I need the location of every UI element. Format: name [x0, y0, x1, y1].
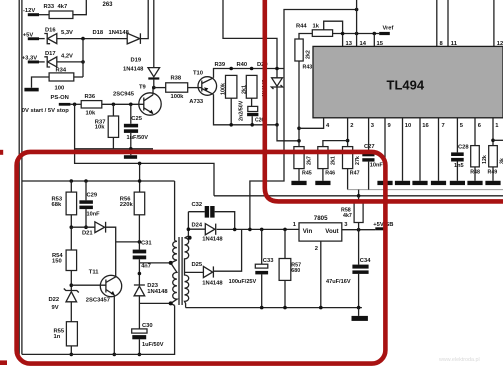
- junction y163.4 riser: [138, 162, 142, 166]
- ground stub (secondary): [358, 308, 360, 316]
- transistor T11 2SC3457: [86, 270, 122, 304]
- wire -12V to R33: [39, 14, 49, 16]
- wire T10 emitter rail: [214, 94, 278, 124]
- svg-text:4,2V: 4,2V: [61, 53, 73, 59]
- wire pin11 riser: [447, 0, 449, 46]
- wire rail A y181: [22, 180, 175, 182]
- svg-text:7805: 7805: [314, 215, 328, 222]
- junction R53/D21: [70, 225, 74, 229]
- junction C33 top: [260, 228, 264, 232]
- junction R40 top: [250, 67, 254, 71]
- wire D18 to riser: [140, 0, 148, 39]
- wire pin 7 to ground: [438, 118, 440, 181]
- svg-text:680: 680: [291, 268, 300, 274]
- transformer TR core: [179, 237, 182, 305]
- zener D22 9V: [49, 289, 79, 322]
- wire rail A to transformer primary: [174, 181, 176, 241]
- junction pin14: [355, 32, 359, 36]
- resistor R38 100k: [166, 76, 188, 100]
- diode D24 1N4148: [188, 223, 223, 243]
- svg-text:15: 15: [377, 41, 384, 47]
- wire R43 bottom stem to R45: [298, 61, 300, 147]
- capacitor C33 100uF/25V: [229, 229, 275, 307]
- wire pin 16 to ground: [419, 118, 421, 181]
- junction R57 top: [283, 228, 287, 232]
- wire T9 collector: [152, 88, 154, 95]
- svg-text:1uF/50V: 1uF/50V: [127, 135, 149, 141]
- svg-text:10nF: 10nF: [87, 212, 101, 218]
- annotation red tick left edge top: [0, 150, 3, 155]
- resistor R58 4k7: [341, 196, 363, 230]
- capacitor C32: [188, 202, 234, 229]
- svg-text:R44: R44: [296, 24, 307, 30]
- svg-text:PS-ON: PS-ON: [51, 95, 69, 101]
- wire pin14 riser: [356, 0, 358, 46]
- transformer secondary winding: [185, 229, 189, 307]
- svg-text:7: 7: [442, 123, 445, 129]
- resistor R48 12k: [470, 118, 488, 181]
- svg-text:A733: A733: [189, 99, 204, 105]
- svg-text:2: 2: [315, 246, 318, 252]
- junction pin15: [373, 32, 377, 36]
- wire base to T11: [71, 284, 106, 286]
- svg-text:C32: C32: [192, 202, 203, 208]
- junction C25 bottom / ground stub: [129, 147, 133, 151]
- svg-text:R36: R36: [85, 94, 96, 100]
- junction T9 collector node: [152, 86, 156, 90]
- diode D18 1N4148: [93, 30, 141, 44]
- junction D23 top: [138, 272, 142, 276]
- svg-text:Vref: Vref: [383, 26, 394, 32]
- svg-text:C33: C33: [263, 258, 274, 264]
- svg-text:68k: 68k: [52, 202, 62, 208]
- ground bar (pin 7): [431, 181, 446, 185]
- junction PS-ON drop: [73, 103, 77, 107]
- resistor R44 1k: [296, 24, 333, 37]
- wire +5V to D16: [39, 38, 45, 40]
- capacitor C31 4n7: [133, 241, 153, 285]
- wire pin 10 to ground: [402, 118, 404, 181]
- node Vref stub: [379, 26, 393, 35]
- wire pin15: [373, 34, 375, 47]
- wire T10 collector supply net: [214, 69, 285, 78]
- wire 7805 output: [342, 229, 376, 231]
- wire upper circuit ground rail y148.8: [75, 148, 153, 150]
- capacitor C34 47uF/16V: [326, 230, 371, 308]
- ground bar (secondary): [352, 316, 368, 321]
- svg-text:T9: T9: [139, 85, 147, 91]
- svg-text:10k: 10k: [95, 125, 105, 131]
- svg-text:C30: C30: [142, 323, 153, 329]
- resistor R40 2k1: [237, 62, 258, 106]
- junction R55 bottom: [70, 353, 74, 357]
- svg-text:4k7: 4k7: [58, 4, 68, 10]
- capacitor C26 2n2/50V: [239, 100, 265, 125]
- svg-text:R38: R38: [171, 76, 182, 82]
- node PS-ON input: [22, 95, 71, 114]
- wire T11 emitter: [113, 295, 115, 355]
- junction primary bottom (dot): [169, 301, 173, 305]
- ground bar (pin 6 / R48): [467, 181, 482, 185]
- svg-text:T11: T11: [89, 270, 99, 276]
- left schematic boundary double line: [19, 0, 22, 354]
- svg-text:D21: D21: [82, 231, 93, 237]
- ground bar (C25 net, over red line): [124, 155, 137, 159]
- svg-text:C34: C34: [360, 258, 371, 264]
- ground bar (pin 5 / C28): [450, 181, 465, 185]
- svg-text:T10: T10: [193, 70, 203, 76]
- svg-text:C27: C27: [364, 144, 375, 150]
- wire bottom ground rail: [22, 306, 175, 355]
- svg-text:C25: C25: [131, 116, 142, 122]
- wire collector tap to C31 node: [116, 241, 140, 243]
- junction C34 bottom: [357, 306, 361, 310]
- svg-text:100: 100: [55, 85, 65, 91]
- resistor R43 2k2: [295, 39, 312, 70]
- wire riser to rail A and R56: [139, 163, 141, 192]
- wire PS-ON to R36: [70, 103, 81, 105]
- junction B (+3,3V zener node): [81, 60, 85, 64]
- junction C26 bottom: [250, 123, 254, 127]
- wire D21 cathode to T11 collector: [106, 227, 116, 276]
- svg-text:16: 16: [422, 123, 429, 129]
- wire R38 to T10 base: [188, 87, 202, 89]
- svg-text:3k: 3k: [500, 158, 503, 164]
- junction pin14 top: [355, 8, 359, 12]
- svg-text:10nF: 10nF: [370, 162, 384, 168]
- capacitor C30 1uF/50V: [132, 323, 164, 355]
- svg-text:1N4148: 1N4148: [123, 66, 144, 72]
- svg-text:220k: 220k: [120, 202, 134, 208]
- ground bar (pin 10): [395, 181, 410, 185]
- svg-text:11: 11: [451, 41, 458, 47]
- svg-text:5,3V: 5,3V: [61, 30, 73, 36]
- svg-text:C29: C29: [87, 193, 98, 199]
- node -12V input stub: [23, 8, 39, 16]
- junction 7805 pin2: [319, 306, 323, 310]
- wire pin8 riser: [436, 0, 438, 46]
- svg-text:C31: C31: [141, 241, 152, 247]
- wire pin 2 to R47: [347, 118, 349, 147]
- svg-text:Vin: Vin: [303, 228, 313, 235]
- svg-text:D18: D18: [93, 30, 104, 36]
- junction D20 bottom: [275, 123, 279, 127]
- junction via x249.9: [248, 228, 252, 232]
- junction R43/D20 feed: [297, 139, 301, 143]
- wire primary bottom tap: [139, 302, 171, 304]
- wire pin12 riser: [493, 0, 495, 46]
- svg-text:4k7: 4k7: [343, 213, 352, 219]
- wire +5V node y229.4: [217, 228, 299, 230]
- wire gray rail y189.6: [348, 189, 503, 191]
- junction C29/D21: [84, 225, 88, 229]
- junction C32: [233, 228, 237, 232]
- transistor T9 2SC945: [113, 85, 161, 116]
- svg-text:R33: R33: [44, 4, 55, 10]
- wire pin 4: [299, 118, 324, 129]
- node +5V input stub: [23, 32, 39, 40]
- wire +5VSB rail y195.8: [214, 195, 503, 197]
- svg-text:150: 150: [52, 258, 62, 264]
- wire R43 top to R44: [299, 34, 312, 40]
- ground bar (pin 16): [412, 181, 427, 185]
- svg-text:2k1: 2k1: [241, 85, 247, 94]
- wire T9 base net: [102, 103, 144, 105]
- svg-text:Vout: Vout: [325, 228, 338, 235]
- svg-text:100k: 100k: [221, 83, 227, 95]
- resistor R47 27k: [343, 147, 362, 190]
- wire D21 anode: [71, 226, 95, 228]
- svg-text:www.elektroda.pl: www.elektroda.pl: [438, 357, 480, 363]
- node +5V SB stub: [373, 222, 393, 230]
- svg-text:1uF/50V: 1uF/50V: [142, 342, 164, 348]
- wire R46 jumper: [323, 141, 348, 147]
- wire stem to +5VSB rail: [358, 190, 360, 196]
- svg-text:R40: R40: [237, 62, 248, 68]
- junction C32 left riser: [187, 227, 191, 231]
- svg-text:100uF/25V: 100uF/25V: [229, 279, 257, 285]
- node +3,3V input stub: [22, 56, 39, 64]
- svg-text:12k: 12k: [482, 155, 488, 164]
- svg-text:D16: D16: [45, 28, 56, 34]
- op-amp U1 TL494: [313, 46, 503, 117]
- diode D21: [82, 222, 106, 237]
- junction A (+5V zener node): [81, 37, 85, 41]
- wire D16 to junction: [57, 38, 127, 40]
- svg-text:9V: 9V: [52, 305, 59, 311]
- svg-text:C28: C28: [458, 144, 469, 150]
- svg-text:0V start / 5V stop: 0V start / 5V stop: [22, 108, 69, 114]
- svg-text:1n5: 1n5: [454, 163, 464, 169]
- junction R39 top: [229, 67, 233, 71]
- junction C25 top: [129, 103, 133, 107]
- svg-text:D22: D22: [49, 297, 60, 303]
- svg-text:R45: R45: [302, 170, 312, 176]
- wire ground stub: [130, 149, 132, 155]
- svg-text:100k: 100k: [171, 94, 185, 100]
- svg-text:27k: 27k: [355, 156, 361, 165]
- ground bar (R46): [315, 181, 330, 185]
- svg-text:R47: R47: [350, 170, 360, 176]
- svg-text:1N4148: 1N4148: [109, 30, 130, 36]
- resistor R49: [488, 118, 503, 181]
- junction R58 top: [357, 194, 361, 198]
- svg-text:-12V: -12V: [23, 8, 35, 14]
- junction D20 top: [275, 67, 279, 71]
- wire R34 left to ground: [32, 77, 50, 88]
- wire via x284 (top feed to +5VSB node): [250, 10, 357, 230]
- resistor R36 10k: [81, 94, 102, 116]
- svg-text:TL494: TL494: [387, 78, 425, 93]
- diode D23 1N4148: [134, 283, 168, 329]
- wire R33 to top edge: [73, 0, 86, 15]
- svg-text:2SC3457: 2SC3457: [86, 297, 110, 303]
- junction primary tap (dot): [169, 261, 173, 265]
- ground bar (R34): [24, 88, 38, 92]
- zener D17 4,2V: [44, 51, 73, 67]
- junction T11 base: [70, 283, 74, 287]
- wire secondary ground rail y307.6: [186, 307, 362, 309]
- junction R39 bottom: [229, 123, 233, 127]
- diode D19 1N4148: [123, 0, 160, 88]
- resistor R37 10k: [95, 104, 119, 149]
- svg-text:1N4148: 1N4148: [202, 280, 223, 286]
- wire D17 to junction: [57, 61, 83, 63]
- annotation red tick left edge bottom: [0, 360, 7, 365]
- svg-text:13: 13: [346, 41, 353, 47]
- svg-text:10: 10: [405, 123, 411, 129]
- transformer primary winding: [171, 241, 177, 306]
- capacitor C28 1n5: [451, 118, 469, 181]
- svg-text:2: 2: [350, 123, 353, 129]
- svg-text:10k: 10k: [86, 110, 96, 116]
- junction C30 bottom: [138, 353, 142, 357]
- svg-text:12: 12: [497, 41, 503, 47]
- svg-text:2n2/50V: 2n2/50V: [239, 100, 245, 121]
- junction C29 top: [84, 179, 88, 183]
- diode D25 1N4148: [185, 262, 224, 287]
- wire +3,3V to D17: [39, 61, 45, 63]
- svg-text:14: 14: [360, 41, 367, 47]
- junction C33 bottom: [260, 306, 264, 310]
- resistor R56 220k: [120, 192, 145, 242]
- svg-text:D17: D17: [45, 51, 56, 57]
- wire collector node to R38: [154, 87, 166, 89]
- svg-text:47uF/16V: 47uF/16V: [326, 279, 351, 285]
- junction pin2/R46: [346, 139, 350, 143]
- svg-text:2k2: 2k2: [306, 50, 312, 59]
- wire D25 cathode to node: [213, 229, 241, 271]
- svg-text:D23: D23: [147, 283, 158, 289]
- regulator U2 7805: [293, 215, 349, 308]
- resistor R53 68k: [52, 181, 77, 227]
- wire feed from top edge: [223, 0, 277, 78]
- junction T11 emitter bottom: [113, 353, 117, 357]
- junction R57 bottom: [283, 306, 287, 310]
- junction pin13: [341, 32, 345, 36]
- capacitor C27 10nF: [362, 118, 383, 190]
- svg-text:D25: D25: [192, 262, 203, 268]
- capacitor C29 10nF: [79, 181, 100, 227]
- wire pin 9 to ground: [384, 118, 386, 181]
- svg-text:1N4148: 1N4148: [202, 237, 223, 243]
- svg-text:1N4148: 1N4148: [147, 289, 168, 295]
- capacitor C25 1uF/50V: [124, 104, 148, 149]
- svg-text:4n7: 4n7: [141, 264, 151, 270]
- transistor T10 A733: [189, 70, 216, 105]
- svg-text:R43: R43: [303, 64, 313, 70]
- junction R58/C34: [357, 228, 361, 232]
- resistor R33 4k7: [44, 4, 73, 19]
- resistor R34 100: [49, 67, 74, 91]
- annotation red box 1 (TL494 section): [265, 0, 503, 201]
- ground bar (pin 9): [377, 181, 392, 185]
- svg-text:2k7: 2k7: [307, 156, 313, 165]
- annotation red box 2 (standby section): [17, 152, 386, 364]
- wire Vref net y33.5: [333, 33, 380, 35]
- wire PS-ON drop to lower nets: [75, 104, 214, 196]
- wire R44 loop to pin13: [324, 21, 343, 46]
- resistor R39 100k: [215, 62, 237, 125]
- resistor R46 2k1: [318, 147, 337, 181]
- svg-text:1k: 1k: [313, 24, 320, 30]
- wire R34 right to junction: [74, 76, 83, 78]
- svg-text:D19: D19: [131, 58, 142, 64]
- zener D16 5,3V: [44, 28, 73, 44]
- wire C31 node to primary tap: [139, 262, 171, 264]
- junction rail A / R56 riser: [138, 179, 142, 183]
- junction secondary top (dot): [188, 236, 192, 240]
- resistor R54 150: [52, 227, 77, 291]
- resistor R45 2k7: [294, 147, 313, 181]
- zener D20 1N4148: [257, 62, 283, 125]
- svg-text:1n: 1n: [54, 334, 61, 340]
- wire D20 node to R45 stem: [277, 125, 299, 141]
- ground bar (pin 1 / R49): [485, 181, 500, 185]
- junction R56/C31: [138, 240, 142, 244]
- resistor R55 1n: [54, 322, 78, 355]
- svg-text:R46: R46: [325, 170, 335, 176]
- svg-text:2k1: 2k1: [331, 156, 337, 165]
- junction R43/pin4: [297, 127, 301, 131]
- svg-text:263: 263: [103, 2, 114, 8]
- ground bar (R45): [291, 181, 306, 185]
- svg-text:D24: D24: [192, 223, 203, 229]
- resistor R57 680: [279, 229, 301, 307]
- svg-text:R39: R39: [215, 62, 226, 68]
- svg-text:2SC945: 2SC945: [113, 91, 135, 97]
- junction R53 top: [70, 179, 74, 183]
- junction R37 top: [112, 103, 116, 107]
- wire junction vertical: [82, 39, 84, 77]
